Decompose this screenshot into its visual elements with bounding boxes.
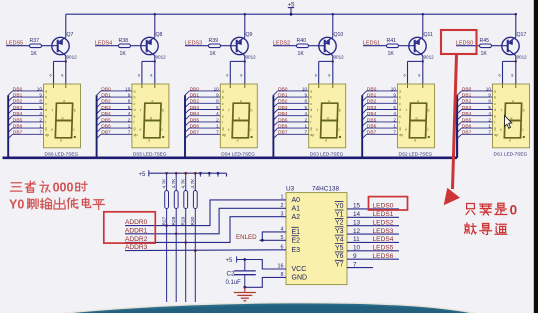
frame right bar xyxy=(534,0,538,313)
svg-text:8: 8 xyxy=(128,99,131,104)
svg-text:5: 5 xyxy=(216,105,219,110)
svg-text:dp: dp xyxy=(399,133,403,137)
resistor R39 1K xyxy=(209,44,221,48)
svg-text:DB0: DB0 xyxy=(13,86,23,92)
resistor R30 4.7K pullup xyxy=(194,172,197,175)
svg-text:dp: dp xyxy=(222,133,226,137)
svg-text:f: f xyxy=(399,121,400,125)
wire Q10 collector to DS3 commons xyxy=(332,56,334,62)
svg-text:1: 1 xyxy=(128,124,131,129)
svg-text:b: b xyxy=(222,96,224,100)
svg-text:b: b xyxy=(399,96,401,100)
wire Q11 collector to DS2 commons xyxy=(422,56,424,62)
svg-text:g: g xyxy=(510,116,512,120)
7-seg display DS4 body xyxy=(220,84,257,148)
svg-text:f: f xyxy=(134,121,135,125)
junction C2/GND xyxy=(243,286,246,289)
svg-text:9: 9 xyxy=(128,93,131,98)
svg-text:ADDR2: ADDR2 xyxy=(125,236,148,243)
svg-text:f: f xyxy=(45,121,46,125)
svg-text:e: e xyxy=(399,114,401,118)
svg-text:DB0: DB0 xyxy=(190,86,200,92)
svg-text:dp: dp xyxy=(45,133,49,137)
svg-text:Y2: Y2 xyxy=(335,220,344,227)
svg-text:DB1: DB1 xyxy=(462,93,472,99)
svg-text:g: g xyxy=(399,127,401,131)
svg-text:6: 6 xyxy=(404,74,406,78)
svg-text:Q10: Q10 xyxy=(334,32,344,38)
resistor R38 1K xyxy=(119,44,131,48)
svg-text:DB5: DB5 xyxy=(278,117,288,123)
svg-text:LEDS0: LEDS0 xyxy=(373,203,394,210)
DS3 segment pins DB0-DB7 xyxy=(278,90,309,92)
svg-text:5: 5 xyxy=(39,105,42,110)
svg-text:LEDS5: LEDS5 xyxy=(373,245,394,252)
svg-text:g: g xyxy=(310,127,312,131)
svg-text:d: d xyxy=(399,108,401,112)
svg-text:DB4: DB4 xyxy=(101,111,111,117)
svg-text:b: b xyxy=(162,109,164,113)
7-seg display DS6 body xyxy=(44,84,81,148)
wire R41 to Q11 base xyxy=(399,45,415,47)
svg-text:+5: +5 xyxy=(139,172,147,178)
svg-text:DB7: DB7 xyxy=(190,130,200,136)
svg-text:Q17: Q17 xyxy=(517,32,527,38)
svg-text:9: 9 xyxy=(39,93,42,98)
junction stubs on pullup rail xyxy=(199,172,202,175)
svg-text:e: e xyxy=(316,128,318,132)
DS2 common pin marks xyxy=(407,85,409,89)
svg-text:9012: 9012 xyxy=(517,55,528,60)
svg-text:8: 8 xyxy=(61,74,63,78)
svg-text:DB7: DB7 xyxy=(278,130,288,136)
junction top rail Q10 xyxy=(332,13,334,15)
svg-text:R27: R27 xyxy=(161,216,167,225)
svg-text:e: e xyxy=(134,114,136,118)
svg-text:DS1 LED-7SEG: DS1 LED-7SEG xyxy=(494,152,528,157)
svg-text:9012: 9012 xyxy=(424,55,435,60)
svg-text:R45: R45 xyxy=(480,38,490,44)
svg-text:d: d xyxy=(325,139,327,143)
junction top rail Q11 xyxy=(422,13,424,15)
wire A2 to ADDR2 xyxy=(125,217,286,243)
ground xyxy=(244,287,246,292)
svg-text:DB4: DB4 xyxy=(462,111,472,117)
wire rail drop Q10 xyxy=(332,14,334,37)
svg-text:g: g xyxy=(327,116,329,120)
wire Y4 output xyxy=(347,241,399,243)
svg-text:a: a xyxy=(512,99,514,103)
DS4 common pin marks xyxy=(229,85,231,89)
bus DS6 vertical xyxy=(7,95,9,158)
svg-text:DB3: DB3 xyxy=(367,105,377,111)
svg-text:f: f xyxy=(310,121,311,125)
svg-text:a: a xyxy=(151,99,153,103)
svg-text:c: c xyxy=(73,128,75,132)
svg-text:U3: U3 xyxy=(286,185,295,192)
junction ENLED xyxy=(261,239,264,242)
bus DS3 vertical xyxy=(272,95,274,158)
DS6 common pin marks xyxy=(53,85,55,89)
svg-text:g: g xyxy=(415,116,417,120)
red box around ADDR0-2 xyxy=(104,212,156,243)
svg-text:8: 8 xyxy=(216,99,219,104)
svg-text:DB7: DB7 xyxy=(462,130,472,136)
wire rail drop Q17 xyxy=(515,14,517,37)
svg-text:4.7K: 4.7K xyxy=(190,178,196,189)
svg-text:DB6: DB6 xyxy=(367,124,377,130)
svg-text:6: 6 xyxy=(499,74,501,78)
svg-text:R38: R38 xyxy=(119,38,129,44)
svg-text:f: f xyxy=(501,109,502,113)
7-seg display DS1 body xyxy=(493,84,530,148)
svg-text:DB6: DB6 xyxy=(278,124,288,130)
bus DS1 vertical xyxy=(456,95,458,158)
svg-text:c: c xyxy=(338,128,340,132)
svg-text:4: 4 xyxy=(216,111,219,116)
svg-text:2: 2 xyxy=(393,117,396,122)
svg-text:8: 8 xyxy=(393,99,396,104)
svg-text:Y0: Y0 xyxy=(335,203,344,210)
svg-text:1: 1 xyxy=(488,124,491,129)
wire R37 to Q7 base xyxy=(42,45,58,47)
svg-text:ENLED: ENLED xyxy=(236,234,257,241)
svg-text:8: 8 xyxy=(488,99,491,104)
red box around LEDS0 top xyxy=(441,30,477,54)
resistor R40 1K xyxy=(297,44,309,48)
svg-text:Q9: Q9 xyxy=(246,32,253,38)
svg-text:e: e xyxy=(228,128,230,132)
svg-text:4: 4 xyxy=(305,111,308,116)
svg-text:6: 6 xyxy=(138,74,140,78)
svg-text:DB2: DB2 xyxy=(278,99,288,105)
svg-text:d: d xyxy=(310,108,312,112)
svg-text:d: d xyxy=(222,108,224,112)
wire E3 to ADDR3 xyxy=(125,249,286,252)
svg-text:DB2: DB2 xyxy=(101,99,111,105)
svg-text:DS3 LED-7SEG: DS3 LED-7SEG xyxy=(310,152,344,157)
svg-text:a: a xyxy=(63,99,65,103)
svg-text:DB2: DB2 xyxy=(462,99,472,105)
svg-text:b: b xyxy=(310,96,312,100)
svg-text:DB4: DB4 xyxy=(13,111,23,117)
wire R40 to Q10 base xyxy=(309,45,325,47)
junction +5/C2 xyxy=(243,258,246,261)
svg-text:2: 2 xyxy=(128,117,131,122)
svg-text:DB3: DB3 xyxy=(101,105,111,111)
svg-text:Q11: Q11 xyxy=(424,32,434,38)
wire Y0 output xyxy=(347,208,399,210)
bus DS4 vertical xyxy=(184,95,186,158)
svg-text:a: a xyxy=(310,90,312,94)
mouse cursor xyxy=(505,116,512,129)
svg-text:1: 1 xyxy=(39,124,42,129)
svg-text:9: 9 xyxy=(488,93,491,98)
svg-text:DB6: DB6 xyxy=(190,124,200,130)
svg-text:e: e xyxy=(222,114,224,118)
7-seg display DS2 body xyxy=(398,84,435,148)
svg-text:b: b xyxy=(134,96,136,100)
svg-text:1K: 1K xyxy=(388,51,395,57)
svg-text:GND: GND xyxy=(292,275,308,282)
svg-text:1: 1 xyxy=(216,124,219,129)
transistor Q8 9012 PNP xyxy=(141,37,158,54)
svg-text:f: f xyxy=(228,109,229,113)
svg-text:74HC138: 74HC138 xyxy=(312,185,339,192)
svg-text:8: 8 xyxy=(511,74,513,78)
svg-text:g: g xyxy=(150,116,152,120)
svg-text:Y6: Y6 xyxy=(335,253,344,260)
svg-text:g: g xyxy=(61,116,63,120)
red arrow LEDS0 to Y0 xyxy=(453,55,457,190)
wire Y7 output stub xyxy=(347,267,373,269)
svg-text:0.1uF: 0.1uF xyxy=(226,280,242,286)
wire Y1 output xyxy=(347,216,399,218)
svg-text:6: 6 xyxy=(315,74,317,78)
wire Y3 output xyxy=(347,233,399,235)
svg-text:5: 5 xyxy=(128,105,131,110)
svg-text:Y1: Y1 xyxy=(335,211,344,218)
svg-text:5: 5 xyxy=(393,105,396,110)
svg-text:b: b xyxy=(250,109,252,113)
svg-text:c: c xyxy=(161,128,163,132)
svg-text:+5: +5 xyxy=(226,258,234,264)
junction top rail Q9 xyxy=(244,13,246,15)
resistor R37 1K xyxy=(30,44,42,48)
svg-text:9012: 9012 xyxy=(334,55,345,60)
svg-text:000: 000 xyxy=(53,181,74,195)
svg-text:g: g xyxy=(238,116,240,120)
transistor Q9 9012 PNP xyxy=(231,37,248,54)
bus DS2 vertical xyxy=(361,95,363,158)
svg-text:DB5: DB5 xyxy=(101,117,111,123)
svg-text:8: 8 xyxy=(305,99,308,104)
svg-text:DB0: DB0 xyxy=(462,86,472,92)
svg-text:a: a xyxy=(328,99,330,103)
svg-text:7: 7 xyxy=(393,130,396,135)
wire Q9 collector to DS4 commons xyxy=(244,56,246,62)
svg-text:DB5: DB5 xyxy=(13,117,23,123)
wire A0 to ADDR0 xyxy=(125,200,286,226)
DS1 common pin marks xyxy=(502,85,504,89)
svg-text:C2: C2 xyxy=(227,271,235,278)
svg-text:0: 0 xyxy=(510,202,518,217)
svg-text:7: 7 xyxy=(216,130,219,135)
svg-text:dp: dp xyxy=(310,133,314,137)
svg-text:LEDS6: LEDS6 xyxy=(373,253,394,260)
svg-text:a: a xyxy=(240,99,242,103)
svg-text:10: 10 xyxy=(486,86,492,91)
svg-text:DB2: DB2 xyxy=(13,99,23,105)
svg-text:DB0: DB0 xyxy=(101,86,111,92)
svg-text:2: 2 xyxy=(305,117,308,122)
svg-text:c: c xyxy=(522,128,524,132)
svg-text:DS5 LED-7SEG: DS5 LED-7SEG xyxy=(133,152,167,157)
wire Y6 output xyxy=(347,258,399,260)
svg-text:R29: R29 xyxy=(181,216,187,225)
svg-text:e: e xyxy=(45,114,47,118)
svg-text:e: e xyxy=(310,114,312,118)
svg-text:LEDS4: LEDS4 xyxy=(373,236,394,243)
DS5 common pin marks xyxy=(141,85,143,89)
svg-text:DB7: DB7 xyxy=(13,130,23,136)
svg-text:1K: 1K xyxy=(31,51,38,57)
svg-text:e: e xyxy=(405,128,407,132)
resistor R29 4.7K pullup xyxy=(184,172,187,175)
svg-text:b: b xyxy=(339,109,341,113)
svg-text:d: d xyxy=(237,139,239,143)
svg-text:DS6 LED-7SEG: DS6 LED-7SEG xyxy=(45,152,79,157)
svg-text:4: 4 xyxy=(488,111,491,116)
svg-text:Q7: Q7 xyxy=(67,32,74,38)
svg-text:DB4: DB4 xyxy=(190,111,200,117)
svg-text:DB3: DB3 xyxy=(278,105,288,111)
wire rail drop Q11 xyxy=(422,14,424,37)
wire E1 tie to E2 xyxy=(262,232,286,240)
wire rail drop Q7 xyxy=(65,14,67,37)
svg-text:1K: 1K xyxy=(120,51,127,57)
svg-text:d: d xyxy=(509,139,511,143)
svg-text:DB5: DB5 xyxy=(367,117,377,123)
svg-text:A1: A1 xyxy=(292,206,301,213)
svg-text:f: f xyxy=(222,121,223,125)
DS4 segment pins DB0-DB7 xyxy=(189,90,220,92)
svg-text:DB1: DB1 xyxy=(190,93,200,99)
svg-text:c: c xyxy=(250,128,252,132)
svg-text:10: 10 xyxy=(302,86,308,91)
svg-text:7: 7 xyxy=(305,130,308,135)
svg-text:e: e xyxy=(494,114,496,118)
svg-text:e: e xyxy=(500,128,502,132)
svg-text:E1: E1 xyxy=(292,229,301,236)
svg-text:e: e xyxy=(139,128,141,132)
7-seg display DS3 body xyxy=(309,84,346,148)
svg-text:1K: 1K xyxy=(481,51,488,57)
svg-text:d: d xyxy=(134,108,136,112)
svg-text:5: 5 xyxy=(305,105,308,110)
transistor Q11 9012 PNP xyxy=(409,37,426,54)
svg-text:Y7: Y7 xyxy=(335,262,344,269)
svg-text:b: b xyxy=(74,109,76,113)
svg-text:b: b xyxy=(523,109,525,113)
junction top rail Q8 xyxy=(154,13,156,15)
DS2 digit segments xyxy=(405,99,431,143)
DS5 segment pins DB0-DB7 xyxy=(101,90,132,92)
resistor R45 1K xyxy=(480,44,492,48)
svg-text:f: f xyxy=(52,109,53,113)
transistor Q10 9012 PNP xyxy=(319,37,336,54)
wire Y2 output xyxy=(347,225,399,227)
svg-text:DB3: DB3 xyxy=(13,105,23,111)
resistor R28 4.7K pullup xyxy=(175,172,178,175)
svg-text:7: 7 xyxy=(128,130,131,135)
svg-text:LEDS3: LEDS3 xyxy=(373,228,394,235)
wire R39 to Q9 base xyxy=(221,45,237,47)
svg-text:g: g xyxy=(494,127,496,131)
svg-text:DB5: DB5 xyxy=(462,117,472,123)
wire +5V top rail xyxy=(66,13,516,15)
wire rail drop Q8 xyxy=(154,14,156,37)
svg-text:DB5: DB5 xyxy=(190,117,200,123)
red note line1 (when three are 000) xyxy=(11,182,22,184)
svg-text:R40: R40 xyxy=(297,38,307,44)
svg-text:f: f xyxy=(494,121,495,125)
svg-text:R41: R41 xyxy=(387,38,397,44)
svg-text:10: 10 xyxy=(391,86,397,91)
svg-text:d: d xyxy=(494,108,496,112)
svg-text:f: f xyxy=(140,109,141,113)
svg-text:DB2: DB2 xyxy=(367,99,377,105)
svg-text:1K: 1K xyxy=(298,51,305,57)
junctions pullups to ADDR lines xyxy=(165,224,168,227)
svg-text:5: 5 xyxy=(488,105,491,110)
svg-text:2: 2 xyxy=(216,117,219,122)
svg-text:c: c xyxy=(427,128,429,132)
svg-text:4: 4 xyxy=(128,111,131,116)
svg-text:R30: R30 xyxy=(190,216,196,225)
svg-text:9: 9 xyxy=(216,93,219,98)
svg-text:E2: E2 xyxy=(292,238,301,245)
svg-text:1K: 1K xyxy=(210,51,217,57)
svg-text:ADDR0: ADDR0 xyxy=(125,219,148,226)
svg-text:DB2: DB2 xyxy=(190,99,200,105)
red box around LEDS0 output xyxy=(369,197,408,210)
svg-text:10: 10 xyxy=(214,86,220,91)
7-seg display DS5 body xyxy=(132,84,169,148)
svg-text:DB6: DB6 xyxy=(462,124,472,130)
svg-text:LEDS1: LEDS1 xyxy=(373,211,394,218)
svg-text:Y4: Y4 xyxy=(335,236,344,243)
svg-text:ADDR3: ADDR3 xyxy=(125,244,148,251)
svg-text:d: d xyxy=(414,139,416,143)
svg-text:DB1: DB1 xyxy=(367,93,377,99)
svg-text:b: b xyxy=(45,96,47,100)
svg-text:8: 8 xyxy=(240,74,242,78)
svg-text:b: b xyxy=(494,96,496,100)
svg-text:a: a xyxy=(417,99,419,103)
wire R38 to Q8 base xyxy=(131,45,147,47)
svg-text:DB6: DB6 xyxy=(101,124,111,130)
svg-text:a: a xyxy=(399,90,401,94)
svg-text:c: c xyxy=(45,102,47,106)
svg-text:d: d xyxy=(45,108,47,112)
bus horizontal rail xyxy=(3,157,458,160)
svg-text:2: 2 xyxy=(488,117,491,122)
svg-text:6: 6 xyxy=(50,74,52,78)
svg-text:f: f xyxy=(406,109,407,113)
svg-text:Y3: Y3 xyxy=(335,228,344,235)
svg-text:9: 9 xyxy=(305,93,308,98)
svg-text:9012: 9012 xyxy=(246,55,257,60)
capacitor C2 0.1uF xyxy=(244,260,246,271)
svg-text:1: 1 xyxy=(305,124,308,129)
wire rail drop Q9 xyxy=(244,14,246,37)
svg-text:Y5: Y5 xyxy=(335,245,344,252)
svg-text:DB0: DB0 xyxy=(367,86,377,92)
svg-text:c: c xyxy=(310,102,312,106)
svg-text:a: a xyxy=(134,90,136,94)
svg-text:4.7K: 4.7K xyxy=(171,178,177,189)
svg-text:10: 10 xyxy=(37,86,43,91)
svg-text:A0: A0 xyxy=(292,197,301,204)
wire R45 to Q17 base xyxy=(492,45,508,47)
transistor Q7 9012 PNP xyxy=(52,37,69,54)
svg-text:b: b xyxy=(428,109,430,113)
svg-text:d: d xyxy=(60,139,62,143)
svg-text:g: g xyxy=(45,127,47,131)
svg-text:8: 8 xyxy=(150,74,152,78)
transistor Q17 9012 PNP xyxy=(502,37,519,54)
